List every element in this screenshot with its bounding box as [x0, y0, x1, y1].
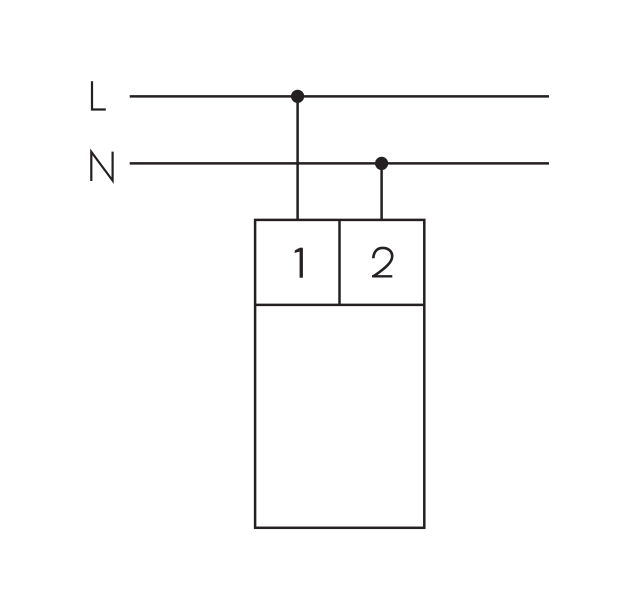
- wire L line: [130, 95, 549, 98]
- net label N: [91, 152, 112, 181]
- terminal row divider (bottom of terminal cells): [255, 304, 424, 307]
- net label L: [92, 81, 106, 109]
- wire N line: [130, 162, 549, 165]
- wire from L to terminal 1: [296, 96, 299, 221]
- terminal cell divider between 1 and 2: [338, 220, 341, 305]
- wire from N to terminal 2: [380, 163, 383, 221]
- pin label 2: [372, 248, 392, 277]
- node junction dot on N: [375, 157, 388, 170]
- device box outline: [255, 220, 424, 528]
- node junction dot on L: [291, 90, 304, 103]
- pin label 1: [295, 248, 303, 278]
